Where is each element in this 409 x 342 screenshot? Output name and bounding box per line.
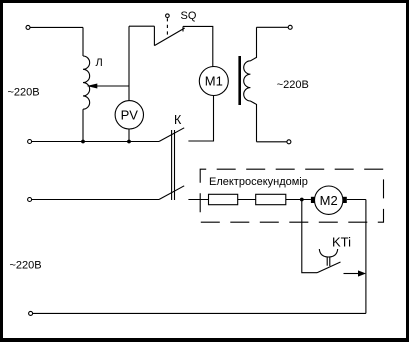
wire lower rail of primary loop (32, 141, 159, 143)
wire R2 to M2 (286, 199, 311, 201)
contact K upper blade (159, 128, 184, 142)
terminal X2 (mid-left supply) (28, 140, 32, 144)
wire M1 bottom to contact K (188, 95, 213, 141)
KTi time-delay symbol (319, 249, 337, 266)
wire KTi right side with arrow (344, 273, 359, 275)
motor M2 brush left (311, 197, 315, 203)
wire SQ to M1 top (183, 26, 213, 66)
wire R1 to R2 (238, 199, 256, 201)
motor M1 (199, 67, 228, 96)
wire junction drop to KTi (302, 200, 317, 273)
motor M2 (315, 186, 343, 214)
wire riser to SQ hinge (129, 25, 154, 27)
terminal X3 (transformer top) (288, 25, 292, 29)
resistor R1 (209, 194, 238, 204)
svg-text:~220В: ~220В (277, 79, 309, 91)
wire M2 to right drop (347, 199, 366, 201)
svg-text:~220В: ~220В (8, 86, 40, 98)
terminal X4 (transformer bottom) (287, 140, 291, 144)
contact KTi blade (317, 262, 341, 273)
wire transformer bottom lead (257, 141, 287, 143)
wire bottom rail (33, 312, 366, 314)
svg-text:M2: M2 (320, 193, 338, 208)
motor M2 brush right (343, 197, 347, 203)
transformer core (238, 56, 241, 105)
transformer winding (244, 27, 257, 142)
svg-text:KTi: KTi (332, 235, 351, 250)
svg-text:SQ: SQ (181, 10, 197, 22)
wire transformer top lead (257, 26, 289, 28)
svg-text:M1: M1 (205, 74, 223, 89)
terminal X5 (timer circuit supply) (28, 198, 32, 202)
terminal X1 (top-left supply) (26, 25, 30, 29)
svg-text:Л: Л (96, 57, 103, 69)
switch SQ (154, 14, 184, 46)
autotransformer L coil (83, 56, 90, 109)
terminal X6 (bottom supply) (29, 311, 33, 315)
wire right drop to bottom rail (365, 200, 367, 314)
wire into timer box (188, 199, 208, 201)
wire L bottom to lower rail (82, 109, 84, 141)
enclosure Elektrosekundomir (dashed box) (200, 169, 383, 222)
contact K lower blade (159, 186, 184, 200)
svg-text:Електросекундомір: Електросекундомір (209, 176, 308, 188)
svg-text:~220В: ~220В (10, 259, 42, 271)
wire timer circuit feed (32, 199, 159, 201)
wire tap riser (to SQ and PV) (128, 26, 130, 101)
wiper arrow of L (97, 85, 129, 87)
wire down to autotransformer (82, 27, 84, 56)
wire top-left horizontal (30, 26, 83, 28)
junction dot at PV bottom (127, 140, 131, 144)
junction dot before M2 (300, 198, 304, 202)
svg-text:К: К (174, 113, 182, 127)
voltmeter PV (115, 101, 143, 129)
resistor R2 (256, 194, 286, 204)
svg-text:PV: PV (121, 107, 139, 122)
mechanical link of K (double line) (171, 130, 173, 200)
junction dot at L bottom (81, 140, 85, 144)
wire PV bottom stub (128, 129, 130, 142)
